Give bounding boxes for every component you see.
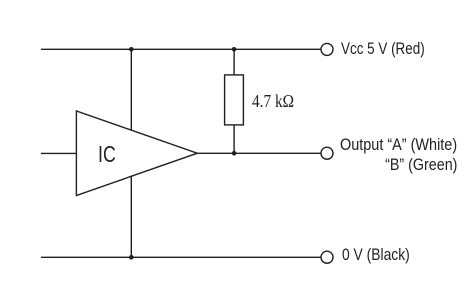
label Vcc 5 V (Red) <box>341 41 425 58</box>
terminal Vcc open circle <box>321 43 333 55</box>
resistor R1 4.7 kOhm body <box>225 75 244 125</box>
node junction J4 (0V to IC) <box>129 255 134 260</box>
terminal Output open circle <box>321 147 333 159</box>
label B Green <box>385 157 457 174</box>
terminal 0V open circle <box>321 251 333 263</box>
wire R1 top lead <box>233 49 235 75</box>
wire IC Vcc supply vertical <box>130 49 132 130</box>
wire IC ground vertical <box>130 176 132 257</box>
node junction J1 (Vcc to IC) <box>129 47 134 52</box>
label 0 V (Black) <box>342 247 410 264</box>
value label 4.7 kOhm <box>252 92 294 110</box>
wire 0V bottom rail <box>41 256 321 258</box>
wire IC input lead <box>41 152 77 154</box>
wire output rail <box>197 152 320 154</box>
wire R1 bottom lead <box>233 125 235 153</box>
reference label IC <box>98 143 116 166</box>
node junction J2 (Vcc to R1) <box>232 47 237 52</box>
label Output A White <box>340 137 457 154</box>
op-amp IC triangle <box>76 111 197 196</box>
wire Vcc top rail <box>41 48 321 50</box>
node junction J3 (output to R1) <box>232 151 237 156</box>
